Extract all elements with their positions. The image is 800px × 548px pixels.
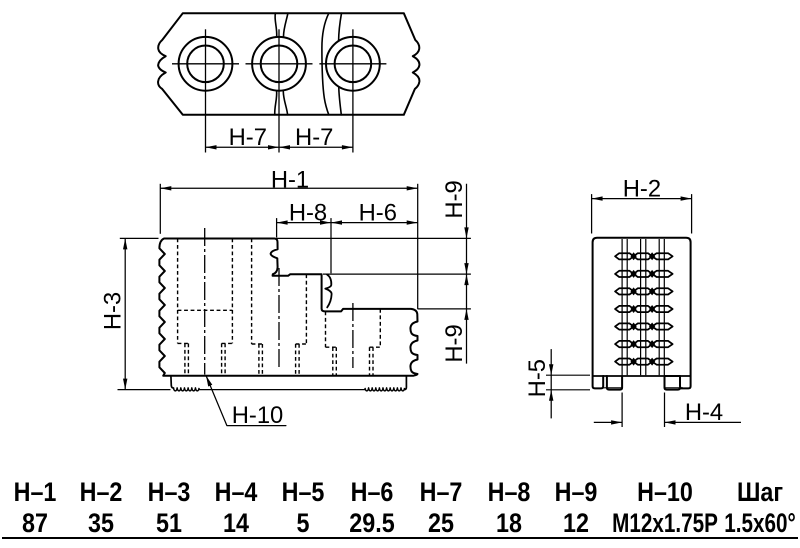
hole 1 counterbore bottom right	[222, 342, 233, 344]
svg-text:H-9: H-9	[441, 324, 468, 362]
hole 1 outer circle (counterbore)	[179, 37, 233, 91]
H-4 dimension line left segment	[594, 421, 622, 423]
H-9 middle extension line (level 2)	[323, 273, 471, 275]
svg-text:H-3: H-3	[99, 292, 126, 330]
H-2 arrow left	[592, 196, 603, 200]
H-2 right extension line	[691, 194, 693, 233]
hole 3 outer circle (counterbore)	[326, 37, 380, 91]
H-3 bottom extension line	[118, 389, 171, 391]
hole 2 counterbore right hidden line	[305, 274, 307, 344]
hole 1 counterbore right hidden line	[231, 239, 233, 344]
hole 1 thread hidden lines right	[221, 343, 223, 375]
hole 2 vertical centerline + H-7 extension	[278, 29, 280, 152]
table header H–6	[348, 479, 397, 506]
hole 3 counterbore right hidden line	[379, 309, 381, 347]
hole 3 horizontal centerline	[319, 63, 386, 65]
H-2 arrow right	[681, 196, 692, 200]
top view step line pair A lower (left)	[275, 91, 277, 115]
top view body outline	[158, 13, 419, 115]
hole 2 horizontal centerline	[246, 63, 313, 65]
knurl neck vertical lines	[621, 239, 623, 375]
dimension H-8 line	[277, 222, 331, 224]
H-4 left extension line	[621, 393, 623, 428]
H-10 leader arrow	[206, 376, 212, 387]
svg-text:H-7: H-7	[295, 124, 333, 151]
top view step line pair B (left, bows around hole 3)	[322, 13, 329, 115]
H-1 arrow left	[160, 186, 171, 190]
H-1 arrow right	[407, 186, 418, 190]
hole 2 outer circle (counterbore)	[252, 37, 306, 91]
hole 1 horizontal centerline	[172, 63, 239, 65]
table value H–8 = 18	[494, 510, 523, 537]
H-5 arrow down-to-top-line	[549, 364, 553, 375]
H-3 top extension line	[120, 237, 159, 239]
table value Шаг = 1.5x60°	[714, 510, 800, 537]
H-9 lower arrow (up at level3)	[464, 309, 468, 320]
hole 3 counterbore bottom left	[326, 346, 337, 348]
table header H–2	[77, 479, 126, 506]
dimension H-6 line	[331, 222, 418, 224]
H-4 arrow pointing left	[665, 420, 676, 424]
strip left serrated teeth	[174, 388, 200, 391]
H-5 bottom extension line	[546, 389, 590, 391]
H-9 upper extension line (level 1)	[277, 237, 471, 239]
front view step-2 serrated face	[325, 275, 331, 308]
table value H–6 = 29.5	[346, 510, 398, 537]
svg-text:H-6: H-6	[359, 200, 397, 227]
svg-text:H-9: H-9	[441, 180, 468, 218]
H-4 dimension line right segment	[665, 421, 742, 423]
H-5 arrow up-to-bottom-line	[549, 390, 553, 401]
end view right box inner bottom line	[665, 387, 684, 389]
H-2 left extension line	[591, 194, 593, 233]
svg-text:H-4: H-4	[685, 399, 723, 426]
dimension H-2 line	[592, 198, 692, 200]
svg-text:H-1: H-1	[271, 166, 309, 193]
H-9 upper arrow (down at level1)	[464, 227, 468, 238]
H-1 left extension line	[159, 184, 161, 234]
table header Шаг	[734, 479, 786, 506]
table header H–5	[278, 479, 327, 506]
H-5 dimension vertical line	[550, 349, 552, 418]
hole 2 thread hidden lines right	[295, 344, 297, 376]
svg-text:H-2: H-2	[623, 176, 661, 203]
front view body outline	[159, 239, 417, 376]
table bottom rule	[2, 537, 798, 540]
hole 1 counterbore mid hidden line	[178, 309, 233, 311]
strip right serrated teeth	[365, 388, 405, 391]
hole 3 vertical centerline + H-7 extension	[352, 29, 354, 152]
table header H–9	[552, 479, 601, 506]
table header H–8	[485, 479, 534, 506]
hole 1 thread hidden lines left	[184, 343, 186, 375]
H-8 arrow right	[320, 220, 331, 224]
table value H–3 = 51	[154, 510, 183, 537]
hole 3 counterbore bottom right	[370, 346, 381, 348]
H-6 arrow left	[331, 220, 342, 224]
strip left edge	[171, 376, 174, 388]
knurl diamond nodes	[631, 252, 637, 260]
H-9 arrows at level2	[464, 274, 468, 285]
top view step line pair A upper (left)	[275, 13, 277, 36]
H-7 arrow left	[206, 145, 217, 149]
svg-text:H-8: H-8	[289, 200, 327, 227]
hole 3 counterbore left hidden line	[325, 311, 327, 347]
hole 3 inner circle (thread)	[335, 46, 372, 83]
hole 1 front centerline	[204, 228, 206, 375]
table header H–1	[11, 479, 60, 506]
table value H–2 = 35	[86, 510, 115, 537]
top view step line pair A lower (right)	[283, 92, 287, 115]
H-9 lower extension line (level 3)	[418, 308, 471, 310]
strip bottom thin line	[199, 389, 365, 391]
H-6 arrow right	[407, 220, 418, 224]
top view step line pair B lower (right)	[339, 87, 342, 115]
H-9 dimension vertical line	[466, 184, 468, 364]
hole 2 counterbore bottom left	[252, 343, 263, 345]
H-1 right extension line	[417, 184, 419, 309]
end view body bottom edge	[593, 375, 691, 377]
table value H–7 = 25	[426, 510, 455, 537]
H-10 leader line	[206, 376, 286, 426]
hole 2 counterbore left hidden line	[251, 239, 253, 345]
table value H–10 = M12x1.75P	[597, 510, 733, 537]
hole 1 vertical centerline + H-7 extension	[205, 29, 207, 152]
svg-text:H-10: H-10	[232, 402, 284, 429]
table value H–1 = 87	[20, 510, 49, 537]
H-4 right extension line	[664, 393, 666, 428]
table header H–10	[633, 479, 696, 506]
hole 2 counterbore bottom right	[296, 343, 307, 345]
H-4 arrow pointing right	[611, 420, 622, 424]
svg-text:H-7: H-7	[229, 124, 267, 151]
H-6 left extension line (step edge)	[330, 218, 332, 273]
table value H–9 = 12	[561, 510, 590, 537]
hole 2 inner circle (thread)	[261, 46, 298, 83]
knurl tooth bands	[615, 253, 673, 365]
end view body outline with bottom tabs	[593, 238, 691, 390]
H-3 arrow up	[123, 238, 127, 249]
hole 3 thread hidden lines left	[332, 347, 334, 375]
hole 1 inner circle (thread)	[187, 46, 224, 83]
H-3 dimension vertical line	[124, 238, 126, 389]
table value H–5 = 5	[295, 510, 310, 537]
table header H–4	[212, 479, 261, 506]
H-8 arrow left	[277, 220, 288, 224]
dimension H-7 line	[206, 146, 353, 148]
H-3 arrow down	[123, 379, 127, 390]
dimension H-1 line	[160, 187, 417, 189]
table header H–7	[417, 479, 466, 506]
hole 3 front centerline	[352, 303, 354, 368]
top view step line pair A upper (right)	[284, 13, 288, 36]
table header H–3	[145, 479, 194, 506]
H-8 left extension line	[276, 218, 278, 237]
hole 1 counterbore left hidden line	[177, 239, 179, 344]
hole 3 thread hidden lines right	[369, 347, 371, 375]
H-5 top extension line	[546, 374, 590, 376]
hole 1 counterbore bottom left	[178, 342, 189, 344]
hole 2 front centerline	[278, 268, 280, 368]
table value H–4 = 14	[222, 510, 251, 537]
hole 2 thread hidden lines left	[258, 344, 260, 376]
end view left box inner bottom line	[603, 387, 622, 389]
H-7 arrows middle	[268, 145, 279, 149]
top view step line pair B upper (right)	[339, 13, 342, 41]
H-7 arrow right	[342, 145, 353, 149]
svg-text:H-5: H-5	[524, 359, 551, 397]
strip right edge	[404, 376, 406, 390]
